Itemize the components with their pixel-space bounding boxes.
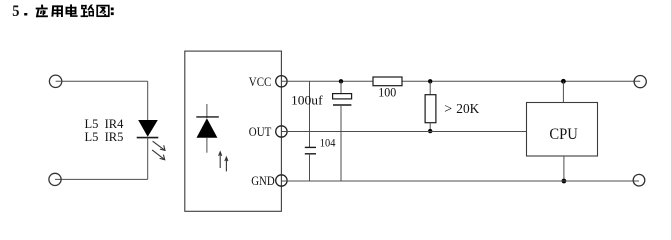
capacitor C2 branch top wire (104) <box>309 81 311 147</box>
char 用 <box>51 5 63 17</box>
char 图 <box>97 6 109 17</box>
char 路 <box>81 5 95 18</box>
VCC net wire resistor R1 to right terminal <box>402 80 640 82</box>
resistor R2 body <box>425 95 436 123</box>
junction dot VCC/CPU <box>561 79 566 84</box>
svg-text:100uf: 100uf <box>291 93 323 108</box>
terminal circle left top <box>49 75 61 87</box>
pin circle VCC <box>276 76 287 87</box>
svg-text:L5 IR5: L5 IR5 <box>85 130 124 144</box>
wire LED cathode vertical <box>147 138 149 180</box>
photodiode wire bottom <box>206 138 208 153</box>
char 电 <box>66 4 78 17</box>
terminal circle right top <box>634 76 646 88</box>
capacitor C1 top wire (100uf) <box>340 81 342 93</box>
terminal circle left bottom <box>49 173 61 185</box>
capacitor C1 negative plate <box>333 104 351 106</box>
CPU ground wire <box>563 156 565 181</box>
resistor R2 bottom wire <box>429 123 431 132</box>
LED emission arrow 1 <box>153 141 165 150</box>
capacitor C2 plate top <box>305 146 316 148</box>
resistor R1 body <box>373 77 402 86</box>
pin circle GND <box>276 175 287 186</box>
svg-text:100: 100 <box>378 86 396 100</box>
junction dot VCC/R2 <box>428 79 432 83</box>
svg-text:GND: GND <box>251 174 275 188</box>
svg-text:>: > <box>444 102 452 117</box>
wire left top horizontal <box>56 80 148 82</box>
terminal circle right bottom <box>633 174 645 186</box>
svg-text:OUT: OUT <box>249 125 272 139</box>
CPU power wire <box>562 81 564 102</box>
capacitor C2 bottom wire <box>309 154 311 181</box>
svg-text:104: 104 <box>320 136 336 149</box>
pin circle OUT <box>276 126 287 137</box>
capacitor C2 plate bottom <box>305 153 316 155</box>
junction dot OUT/R2 <box>428 129 432 133</box>
sensor module box U1 <box>185 51 282 211</box>
svg-text:L5 IR4: L5 IR4 <box>85 117 125 131</box>
capacitor C1 positive plate box <box>333 94 352 99</box>
svg-text:CPU: CPU <box>549 126 578 143</box>
CPU box U2 <box>527 103 598 157</box>
wire LED anode vertical <box>147 81 149 120</box>
svg-text:20K: 20K <box>456 102 479 117</box>
LED D1 cathode bar <box>137 137 159 139</box>
OUT net wire to CPU <box>281 131 526 133</box>
title "5. 应用电路图:" <box>12 3 113 20</box>
photodiode wire top <box>206 104 208 118</box>
LED D1 triangle <box>138 120 158 137</box>
VCC net wire to resistor R1 <box>281 80 373 82</box>
capacitor C1 bottom wire <box>340 105 342 181</box>
light arrow 2 into photodiode <box>225 157 228 171</box>
LED emission arrow 2 <box>152 150 165 160</box>
GND net wire <box>281 180 639 182</box>
svg-text:5: 5 <box>12 3 19 20</box>
char 应 <box>36 5 48 18</box>
junction dot VCC/C1 <box>339 79 343 83</box>
wire left bottom horizontal <box>55 178 148 180</box>
photodiode D2 triangle <box>197 118 218 138</box>
photodiode cathode bar <box>196 116 219 118</box>
svg-text:VCC: VCC <box>249 75 271 89</box>
light arrow 1 into photodiode <box>219 152 222 168</box>
junction dot GND/CPU <box>562 179 567 184</box>
colon <box>111 8 114 11</box>
resistor R2 top wire <box>429 81 431 94</box>
